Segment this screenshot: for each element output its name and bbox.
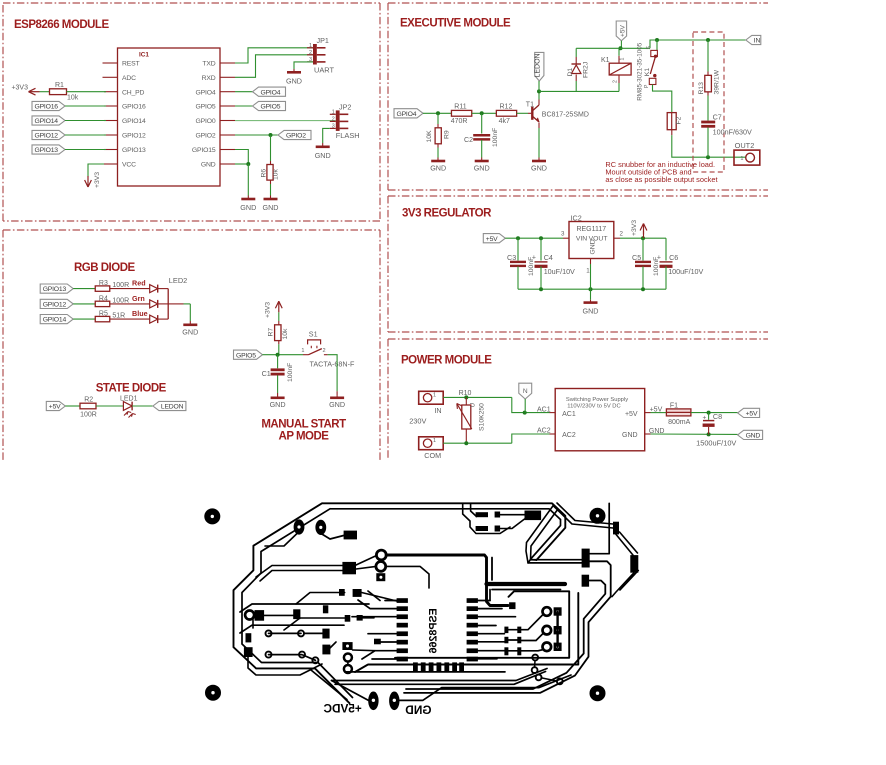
wire IC2 GND pin [590, 259, 592, 290]
svg-text:K1: K1 [601, 57, 610, 64]
svg-text:GND: GND [240, 203, 256, 212]
pcb tall pad 2 [582, 575, 590, 587]
fuse F2 [667, 113, 682, 130]
diode LED2 Blue element [150, 315, 169, 323]
pcb pad square mid [342, 562, 356, 574]
pcb outline inner ring [242, 509, 561, 698]
power +3V3 arrow manual [265, 301, 283, 318]
diode LED2 Grn element [150, 300, 169, 308]
IC1 pin name labels [122, 61, 216, 169]
svg-text:GPIO0: GPIO0 [195, 118, 215, 125]
pcb via 3 [266, 652, 272, 658]
connector JP1 [307, 36, 334, 75]
wire R2 to LED1 [96, 405, 123, 407]
svg-text:+5V: +5V [49, 404, 61, 411]
wire F2 to OUT2 rail [672, 130, 746, 158]
pcb ring pad B [376, 562, 386, 572]
pcb black rect tr [525, 511, 542, 521]
transistor T1 [526, 102, 589, 123]
pcb via br 4 [557, 679, 563, 685]
svg-text:F1: F1 [670, 402, 678, 409]
capacitor C2 [464, 113, 499, 147]
svg-text:GND: GND [589, 239, 596, 254]
wire PSU GND rail [645, 432, 738, 436]
wire contact P to F2 [653, 85, 672, 113]
pcb ring pad A [376, 550, 386, 560]
pcb conn bar [556, 612, 558, 647]
pcb ESP left pad traces [352, 591, 397, 659]
pcb via br traces [535, 660, 557, 681]
svg-text:+: + [702, 415, 706, 422]
pcb pad square top [344, 531, 357, 540]
resistor R7 [267, 325, 289, 345]
pcb sq tr1 [495, 512, 501, 518]
svg-text:GPIO13: GPIO13 [122, 147, 146, 154]
capacitor C8 [696, 412, 736, 448]
svg-text:AC2: AC2 [537, 428, 551, 435]
node tag LEDON state [153, 401, 186, 410]
pcb bottom edge traces [332, 669, 548, 685]
svg-text:RGB DIODE: RGB DIODE [74, 262, 136, 274]
junction GPIO15/GND [246, 162, 250, 166]
diode LED1 [120, 396, 138, 418]
svg-text:GPIO14: GPIO14 [43, 317, 67, 324]
svg-text:U: U [469, 403, 476, 408]
relay contact K1 [636, 40, 657, 101]
wire LEDON to junction [538, 81, 540, 91]
pcb esp row1 riser [489, 590, 491, 601]
pcb mounting hole top-left [204, 508, 220, 524]
wire LED1 to LEDON [132, 405, 153, 407]
pcb pocket outline [463, 503, 510, 533]
pcb bar c2 [322, 645, 330, 655]
svg-text:JP2: JP2 [339, 102, 351, 111]
LED Blue label [132, 309, 148, 318]
capacitor C7 [701, 113, 752, 158]
svg-text:2: 2 [332, 117, 335, 123]
pcb square next ring [255, 610, 265, 621]
pcb bar 4 [293, 609, 300, 619]
svg-text:R12: R12 [500, 103, 513, 110]
wire +3V3 to R7 [278, 312, 280, 325]
svg-text:R4: R4 [99, 295, 108, 302]
svg-text:EXECUTIVE MODULE: EXECUTIVE MODULE [400, 18, 511, 30]
pcb loop top bar [487, 582, 566, 586]
resistor R4 [95, 295, 129, 306]
wire GPIO4 to R11 [423, 111, 451, 115]
resistor R3 [95, 280, 129, 291]
connector OUT2 [734, 141, 760, 165]
wire GPIO12 to R4 [73, 303, 95, 305]
svg-text:2: 2 [309, 50, 312, 56]
diode D1 [567, 48, 590, 91]
ground GND under R6 [263, 196, 279, 213]
wire R12 to T1 base [517, 112, 532, 114]
svg-text:FR2J: FR2J [582, 62, 589, 78]
wire R4 to LED [110, 303, 150, 305]
svg-text:ADC: ADC [122, 75, 136, 82]
wire TXD to JP1 pin1 [235, 48, 313, 63]
wire R7 to junction [278, 344, 280, 354]
pcb corner rect B [630, 555, 638, 573]
svg-text:CH_PD: CH_PD [122, 89, 145, 96]
svg-text:10uF/10V: 10uF/10V [544, 267, 575, 276]
svg-text:R3: R3 [99, 280, 108, 287]
svg-text:GPIO14: GPIO14 [122, 118, 146, 125]
svg-text:GPIO16: GPIO16 [35, 104, 59, 111]
svg-text:C1: C1 [262, 369, 271, 378]
pcb conn small sq [509, 602, 515, 609]
svg-text:Red: Red [132, 279, 146, 288]
svg-text:AC2: AC2 [562, 432, 576, 439]
svg-text:IN: IN [434, 406, 441, 415]
junction T1 collector [537, 89, 541, 93]
pcb via 4 [299, 652, 305, 658]
svg-text:+5V: +5V [620, 24, 627, 37]
pcb pad +5VDC oval [368, 692, 378, 711]
wire IC2 VOUT rail [614, 236, 666, 240]
svg-text:C6: C6 [669, 253, 678, 262]
pcb bar 2 [357, 615, 363, 621]
pcb conn square 3 [554, 643, 562, 651]
svg-text:R2: R2 [84, 397, 93, 404]
pcb horizontal pair to pad [528, 558, 582, 563]
pcb square hole pad [342, 642, 352, 650]
svg-text:GND: GND [474, 163, 490, 172]
pcb ESP right pad traces [478, 601, 517, 659]
svg-text:JP1: JP1 [317, 36, 329, 45]
svg-text:+3V3: +3V3 [11, 85, 28, 92]
pcb conn ring 1 [543, 607, 552, 616]
capacitor C3 [507, 238, 535, 289]
svg-text:GPIO13: GPIO13 [43, 286, 67, 293]
svg-text:GND: GND [315, 151, 331, 160]
ground GND under IC1 [240, 196, 256, 213]
wire LED2 common cathode [168, 289, 190, 321]
svg-text:GPIO5: GPIO5 [261, 104, 281, 111]
svg-text:GND: GND [182, 328, 198, 337]
svg-text:1: 1 [433, 438, 436, 444]
node tag +5V out [738, 408, 760, 417]
svg-text:R6: R6 [260, 169, 267, 178]
pcb via br 1 [532, 655, 538, 661]
wire bottom gnd rail [518, 287, 666, 291]
ground GND under C2 [474, 158, 490, 173]
svg-text:T1: T1 [526, 102, 534, 109]
node tag GPIO14 [32, 116, 65, 125]
wire COM to AC2 [443, 434, 555, 445]
svg-text:GPIO12: GPIO12 [122, 133, 146, 140]
node tag N [519, 383, 532, 412]
pcb corner bar A [613, 522, 619, 535]
wire R3 to LED [110, 288, 150, 290]
power +5V supply symbol [616, 21, 626, 48]
pcb plus5vdc trace [311, 670, 368, 700]
wire GPIO0 to JP2 pin2 [235, 120, 336, 122]
svg-text:1: 1 [309, 43, 312, 49]
svg-text:10k: 10k [67, 95, 79, 102]
wire +5V to IC2 VIN [505, 236, 569, 240]
svg-text:R10: R10 [459, 390, 472, 397]
node tag GPIO14 [40, 315, 73, 324]
svg-text:IN: IN [754, 38, 761, 45]
svg-text:R1: R1 [55, 82, 64, 89]
svg-text:Switching Power Supply: Switching Power Supply [566, 397, 628, 403]
svg-text:+5V: +5V [625, 411, 638, 418]
pcb trace pad B to square [321, 534, 344, 540]
wire GPIO5 tag [235, 105, 253, 107]
svg-text:AC1: AC1 [562, 411, 576, 418]
frame POWER module box [388, 339, 768, 458]
svg-text:+3V3: +3V3 [94, 172, 101, 188]
pcb via 2 [298, 630, 304, 636]
pcb conn ring 2 [543, 626, 552, 635]
node tag GPIO13 [40, 284, 73, 293]
pcb L trace up [590, 503, 610, 553]
svg-text:COM: COM [424, 451, 441, 460]
svg-text:AP MODE: AP MODE [279, 430, 330, 442]
wire JP2 pin3 to GND [323, 128, 330, 143]
svg-text:GND: GND [531, 163, 547, 172]
svg-text:S1: S1 [309, 329, 318, 338]
pcb trace pad A down [265, 534, 297, 547]
resistor R13 [698, 40, 721, 121]
svg-text:FLASH: FLASH [336, 131, 360, 140]
pcb sq tr2 [495, 526, 501, 532]
pcb mid bar col B [517, 627, 521, 656]
svg-text:GPIO5: GPIO5 [236, 352, 256, 359]
pcb square mid to rings [356, 556, 377, 570]
svg-text:ESP8266: ESP8266 [427, 608, 439, 653]
regulator IC2 [561, 213, 624, 274]
pcb conn square 2 [554, 626, 562, 634]
pcb outline outer ring [234, 503, 566, 703]
svg-text:GPIO13: GPIO13 [35, 147, 59, 154]
wire +5V horizontal [576, 47, 650, 49]
relay coil K1 [601, 48, 631, 91]
ground GND under R9 [430, 158, 446, 173]
svg-text:AC1: AC1 [537, 406, 551, 413]
svg-text:LED2: LED2 [169, 276, 188, 285]
ground GND under JP2 [315, 143, 331, 160]
node tag GND out [738, 430, 763, 439]
connector IN 230V [419, 391, 444, 415]
capacitor C6 [657, 238, 704, 289]
pcb trace to square mid [256, 566, 342, 582]
wire GPIO16 to IC1 [65, 105, 106, 107]
pcb mid bar col A [504, 627, 508, 656]
pcb mounting hole bottom-left [205, 685, 221, 701]
svg-text:ESP8266 MODULE: ESP8266 MODULE [14, 19, 109, 31]
wire T1 collector up [538, 91, 540, 105]
svg-text:LEDON: LEDON [161, 404, 184, 411]
svg-text:800mA: 800mA [668, 419, 691, 426]
resistor R12 [496, 103, 516, 125]
ground GND 3v3reg [583, 289, 599, 315]
pcb loop inner bar [492, 558, 561, 590]
power +3V3 arrow up [631, 220, 647, 238]
svg-text:IC2: IC2 [571, 213, 582, 222]
LED Red label [132, 279, 146, 288]
pcb trace ringB right [386, 566, 429, 588]
node tag GPIO4 input [394, 109, 423, 118]
resistor R9 [426, 113, 450, 147]
frame 3V3 REGULATOR module box [388, 196, 768, 332]
pcb pad oval A [294, 519, 305, 534]
svg-text:LED1: LED1 [120, 396, 138, 403]
svg-text:+: + [657, 254, 661, 261]
pcb ring small 1 [344, 654, 352, 662]
wire IN to AC1 [443, 395, 555, 414]
svg-text:Grn: Grn [132, 294, 145, 303]
pcb via 5 [312, 657, 318, 663]
svg-text:+5V: +5V [486, 236, 498, 243]
node tag GPIO12 [40, 299, 73, 308]
power +3V3 arrow down [85, 172, 101, 188]
node tag GPIO16 [32, 101, 65, 110]
pcb via row traces [240, 604, 369, 660]
pcb bar left 2 [244, 647, 253, 657]
wire GPIO5 to S1 [263, 353, 304, 357]
wire VCC to +3V3 arrow [88, 164, 104, 177]
svg-text:1: 1 [620, 58, 626, 61]
svg-text:C7: C7 [713, 113, 722, 122]
resistor R5 [95, 311, 125, 322]
svg-text:39R/1W: 39R/1W [713, 69, 720, 94]
svg-text:TACTA-68N-F: TACTA-68N-F [310, 359, 355, 368]
svg-text:S10K250: S10K250 [479, 403, 486, 431]
svg-text:100uF/10V: 100uF/10V [668, 267, 703, 276]
svg-text:R7: R7 [267, 328, 274, 337]
svg-text:GND: GND [286, 77, 302, 86]
pcb ESP bottom pads [413, 662, 464, 672]
wire GPIO12 to IC1 [65, 134, 106, 136]
wire GPIO14 to IC1 [65, 120, 106, 122]
svg-text:C5: C5 [632, 253, 641, 262]
wire GPIO15 down [235, 150, 248, 165]
pcb right connector box [355, 591, 578, 672]
svg-text:+5VDC: +5VDC [323, 702, 362, 716]
pcb mounting hole top-right [590, 508, 606, 524]
IC1 pin stubs [103, 63, 236, 164]
svg-text:10k: 10k [273, 168, 280, 180]
pcb pad oval B [315, 520, 326, 535]
svg-text:470R: 470R [451, 118, 468, 125]
svg-text:GPIO15: GPIO15 [192, 147, 216, 154]
pcb bar tr1 [476, 512, 488, 517]
diode LED2 Red element [150, 285, 169, 293]
svg-text:GPIO12: GPIO12 [35, 133, 59, 140]
capacitor C4 [532, 238, 575, 289]
wire T1 emitter down [538, 123, 540, 158]
svg-text:GPIO4: GPIO4 [195, 89, 215, 96]
svg-text:K1: K1 [644, 68, 651, 77]
wire GPIO14 to R5 [73, 318, 95, 320]
pcb square pad hole [376, 573, 385, 581]
wire R9 to GND [437, 148, 439, 158]
pcb bar 1 [345, 615, 351, 622]
wire R6 to GND [270, 184, 272, 196]
svg-text:GND: GND [263, 203, 279, 212]
svg-text:OUT2: OUT2 [735, 141, 755, 150]
svg-text:RXD: RXD [202, 75, 216, 82]
ground GND under T1 [531, 158, 547, 173]
svg-text:TXD: TXD [202, 61, 215, 68]
pcb tr cluster traces [500, 507, 557, 563]
svg-text:VIN: VIN [576, 236, 587, 243]
svg-text:F2: F2 [676, 116, 683, 124]
svg-text:C8: C8 [713, 412, 722, 421]
pcb T pad 1 [339, 589, 345, 596]
svg-text:POWER MODULE: POWER MODULE [401, 355, 492, 367]
svg-text:100nF/630V: 100nF/630V [713, 127, 752, 136]
pcb tall pad 1 [582, 549, 590, 568]
svg-text:GND: GND [649, 428, 665, 435]
svg-text:2: 2 [323, 348, 326, 354]
junction contact branch [655, 38, 659, 42]
power +3V3 arrow left [11, 85, 39, 96]
svg-text:C3: C3 [507, 253, 516, 262]
op-amp U IC1 ESP8266 box [118, 48, 221, 186]
ground GND rgb [182, 321, 198, 337]
wire +3V3 to R1 [40, 91, 51, 93]
svg-text:1: 1 [332, 110, 335, 116]
svg-text:230V: 230V [409, 417, 426, 426]
node tag LEDON vertical [535, 52, 544, 81]
pcb via br 2 [532, 667, 538, 673]
svg-text:GPIO5: GPIO5 [195, 104, 215, 111]
svg-text:GPIO2: GPIO2 [286, 133, 306, 140]
svg-text:100nF: 100nF [492, 128, 499, 147]
varistor R10 [457, 390, 486, 442]
svg-text:R11: R11 [454, 103, 466, 110]
node tag +5V state [46, 401, 65, 410]
svg-text:GPIO16: GPIO16 [122, 104, 146, 111]
svg-text:GND: GND [430, 163, 446, 172]
pcb bar 3 [374, 639, 381, 645]
svg-text:2: 2 [620, 231, 624, 238]
svg-text:GND: GND [405, 703, 432, 717]
node tag GPIO5 manual [234, 350, 263, 359]
svg-text:10k: 10k [282, 328, 289, 340]
pcb bar tr2 [476, 526, 488, 531]
svg-text:C4: C4 [544, 253, 553, 262]
wire GPIO13 to R3 [73, 288, 95, 290]
wire C2 to GND [481, 140, 483, 158]
ground GND under C1 [270, 393, 286, 409]
pcb ESP right pads [467, 598, 478, 661]
svg-text:GND: GND [622, 432, 638, 439]
svg-text:R13: R13 [698, 82, 705, 95]
pcb bar c1 [322, 629, 329, 639]
svg-text:D1: D1 [567, 68, 574, 77]
node tag IN [746, 35, 761, 44]
wire coil bottom net [539, 90, 619, 92]
wire S1 to GND [328, 355, 338, 392]
pcb mounting hole bottom-right [590, 685, 606, 701]
svg-text:GND: GND [746, 433, 761, 440]
svg-text:IC1: IC1 [139, 52, 149, 59]
wire +5V to R2 [65, 405, 80, 407]
pcb bar 5 [323, 605, 328, 613]
pcb corner traces [553, 503, 638, 597]
svg-text:GND: GND [270, 400, 286, 409]
svg-text:+5V: +5V [650, 406, 663, 413]
svg-text:1: 1 [433, 392, 436, 398]
frame EXECUTIVE module box [388, 3, 768, 190]
svg-text:+: + [532, 254, 536, 261]
pcb misc left traces [248, 593, 397, 676]
